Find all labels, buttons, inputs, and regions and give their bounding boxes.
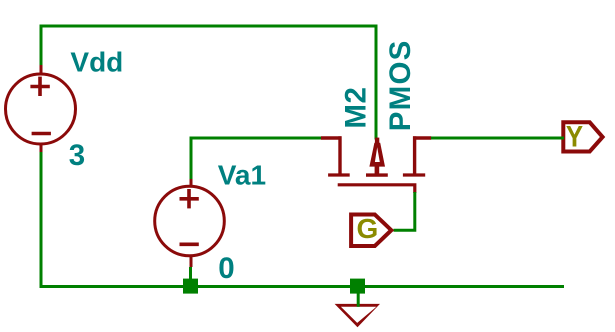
M2 well stub	[375, 138, 379, 144]
M2 gate line	[338, 185, 415, 193]
wire Va1 top vertical	[190, 137, 193, 180]
export pin G pentagon	[351, 215, 391, 247]
voltage source Va1 circle	[155, 186, 225, 256]
M2 well bar	[366, 173, 388, 176]
Vdd plus sign	[30, 77, 49, 96]
wire Va1 to PMOS gate-side horizontal	[190, 137, 322, 140]
svg-text:0: 0	[218, 252, 234, 285]
M2 well arrow (open triangle)	[369, 143, 385, 167]
junction at ground tap	[350, 279, 365, 294]
export pin Y pentagon	[563, 122, 602, 151]
M2 right terminal bar	[403, 173, 425, 176]
transistor M2 PMOS: left terminal lead	[321, 136, 342, 174]
wire top horizontal Vdd to PMOS	[40, 25, 378, 28]
Va1 top red stub	[190, 179, 193, 187]
wire Va1 bottom vertical	[189, 267, 192, 287]
junction at Va1 / ground rail	[183, 279, 198, 294]
Va1 minus sign	[180, 243, 199, 247]
voltage source Vdd circle	[6, 74, 76, 144]
wire gate down to G pin	[394, 192, 415, 230]
wire drain to Y pin	[431, 137, 563, 140]
wire left vertical lower	[40, 152, 43, 288]
M2 left terminal bar	[328, 173, 350, 176]
wire PMOS well vertical from top rail	[375, 25, 378, 140]
M2 well stem	[375, 166, 380, 174]
Va1 plus sign	[180, 189, 199, 208]
svg-text:3: 3	[69, 139, 85, 172]
svg-text:G: G	[357, 213, 379, 244]
svg-text:M2: M2	[340, 87, 373, 129]
ground symbol	[335, 304, 380, 327]
svg-text:PMOS: PMOS	[384, 40, 417, 132]
wire left vertical upper (Vdd top lead)	[40, 25, 43, 66]
M2 right terminal lead	[413, 136, 431, 174]
svg-text:Vdd: Vdd	[70, 46, 123, 77]
wire bottom horizontal	[40, 285, 565, 288]
Va1 bottom red stub	[190, 256, 193, 267]
wire ground stub	[357, 287, 360, 307]
Vdd bottom red stub	[40, 144, 43, 152]
wire tip into Y pin	[556, 137, 564, 140]
svg-text:Va1: Va1	[218, 159, 266, 190]
svg-text:Y: Y	[566, 120, 584, 153]
wire Vdd top red stub	[40, 65, 43, 74]
Vdd minus sign	[32, 132, 51, 136]
